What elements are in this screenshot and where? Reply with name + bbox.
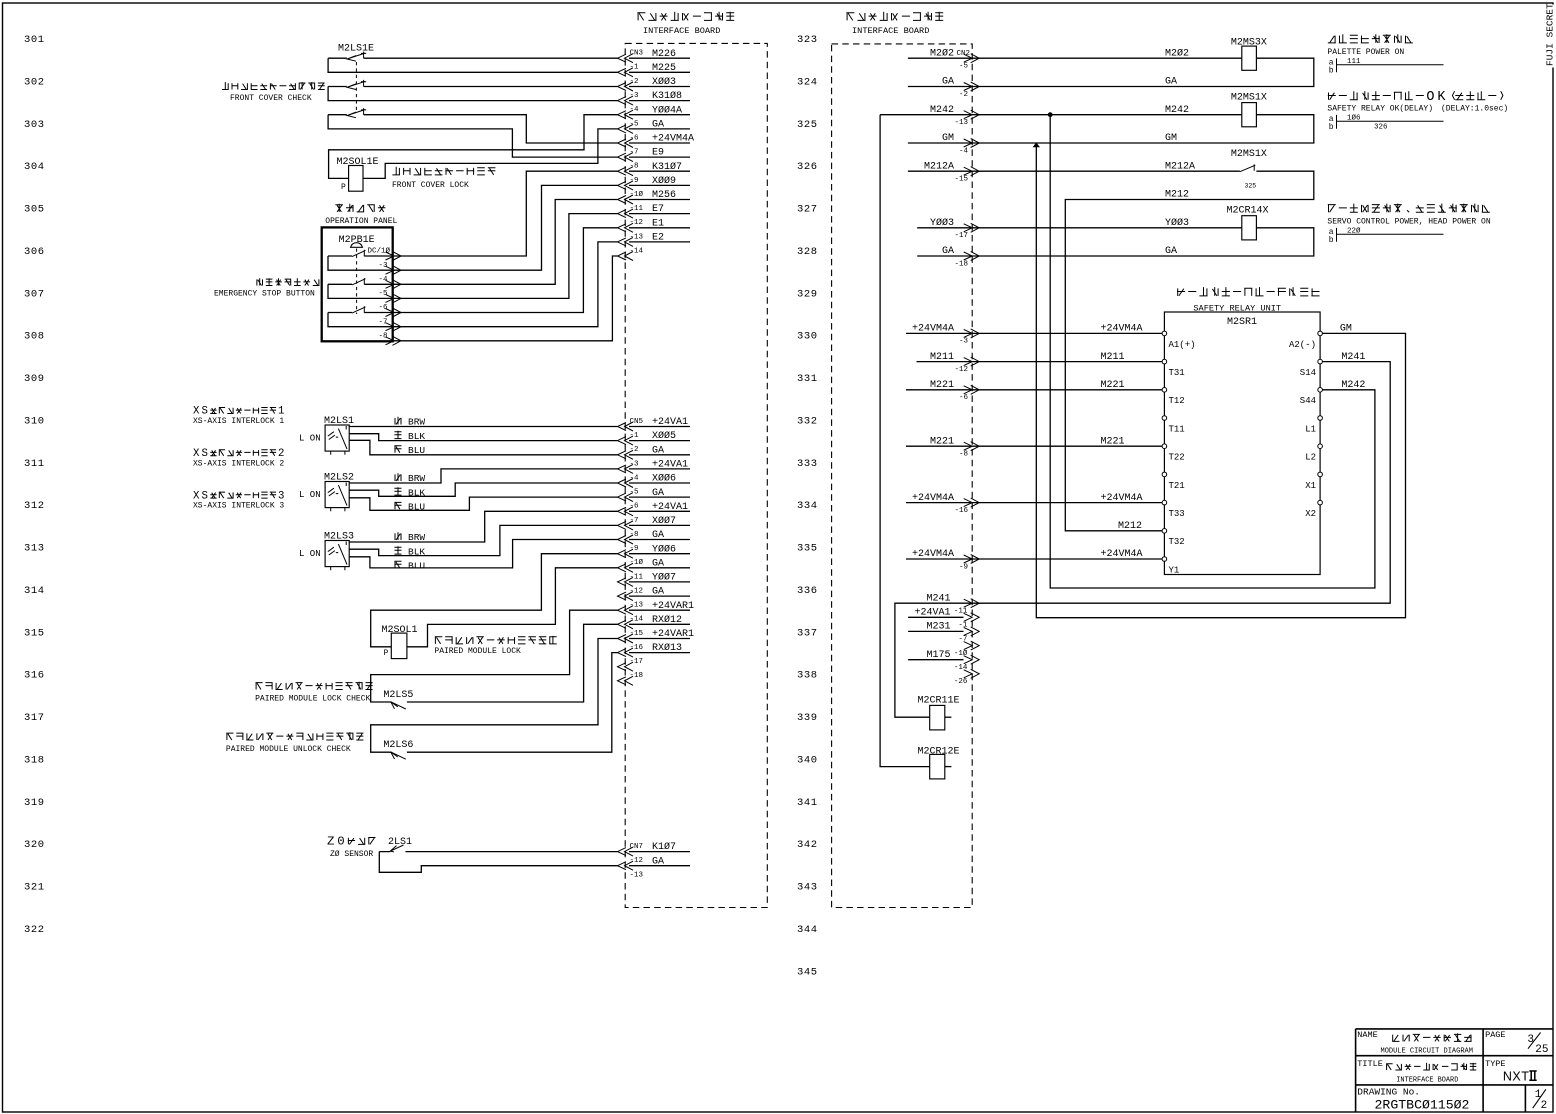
svg-text:315: 315 [24,627,45,639]
svg-text:-11: -11 [630,205,644,213]
svg-text:NXT: NXT [1503,1070,1530,1084]
svg-text:M212: M212 [1165,190,1189,201]
svg-text:25: 25 [1535,1044,1548,1056]
svg-text:PAIRED MODULE LOCK: PAIRED MODULE LOCK [434,647,521,656]
svg-text:M2MS1X: M2MS1X [1231,92,1267,103]
svg-text:PAGE: PAGE [1485,1030,1505,1040]
wire E9 loop [328,115,617,157]
svg-text:(DELAY:1.0sec): (DELAY:1.0sec) [1441,105,1508,114]
svg-text:2: 2 [278,448,284,460]
svg-text:M2PB1E: M2PB1E [339,235,375,246]
svg-text:338: 338 [797,670,818,682]
svg-text:T32: T32 [1169,537,1185,547]
svg-text:S44: S44 [1300,396,1316,406]
svg-text:-16: -16 [630,644,644,652]
svg-text:M221: M221 [1101,436,1125,447]
svg-text:PAIRED MODULE UNLOCK CHECK: PAIRED MODULE UNLOCK CHECK [226,745,351,754]
svg-text:0: 0 [337,835,344,849]
interface board label (right) [846,12,943,21]
wire GA z0 [379,852,617,873]
svg-text:341: 341 [797,797,818,809]
svg-text:-12: -12 [954,366,968,374]
svg-text:EMERGENCY STOP BUTTON: EMERGENCY STOP BUTTON [214,290,315,299]
svg-text:M211: M211 [930,352,954,363]
operation panel box [322,227,393,341]
svg-text:NAME: NAME [1357,1030,1377,1040]
svg-text:M242: M242 [1165,105,1189,116]
svg-text:M241: M241 [1341,352,1365,363]
svg-text:317: 317 [24,712,45,724]
label xs-axis interlock 3 [210,492,276,498]
svg-text:X1: X1 [1305,481,1316,491]
svg-text:b: b [1329,236,1334,245]
svg-text:M2LS6: M2LS6 [383,740,413,751]
svg-text:-12: -12 [630,857,644,865]
svg-text:M2MS1X: M2MS1X [1231,149,1267,160]
front cover switch 3 [347,108,366,118]
svg-text:335: 335 [797,543,818,555]
wire BLK1 X005 [349,434,617,441]
svg-text:326: 326 [797,161,818,173]
svg-text:M2SOL1: M2SOL1 [382,625,418,636]
wire BRW3 +24VA1 [349,511,617,542]
svg-text:K: K [1437,90,1446,105]
svg-text:FRONT COVER CHECK: FRONT COVER CHECK [230,94,312,103]
svg-text:X: X [193,406,200,418]
svg-text:M211: M211 [1101,352,1125,363]
svg-text:-6: -6 [630,503,640,511]
svg-text:342: 342 [797,839,818,851]
svg-text:-1Ø: -1Ø [630,558,644,567]
svg-text:INTERFACE BOARD: INTERFACE BOARD [852,26,929,36]
svg-text:308: 308 [24,331,45,343]
svg-text:340: 340 [797,755,818,767]
svg-text:-17: -17 [954,232,968,240]
svg-text:SAFETY RELAY OK(DELAY): SAFETY RELAY OK(DELAY) [1327,105,1433,114]
svg-text:P: P [384,649,389,658]
wire +24VM4A to A1(+) [906,332,1162,334]
svg-text:303: 303 [24,119,45,131]
svg-text:-15: -15 [630,630,644,638]
svg-text:-13: -13 [630,233,644,241]
svg-text:GA: GA [1165,246,1177,257]
svg-text:-13: -13 [630,871,644,879]
operation panel pins [386,252,402,261]
svg-text:S: S [202,448,208,460]
svg-text:XS-AXIS INTERLOCK 2: XS-AXIS INTERLOCK 2 [193,459,284,468]
connector CN2 lower pins [964,613,980,622]
svg-text:-11: -11 [630,573,644,581]
svg-text:344: 344 [797,924,818,936]
wire estop pin -6 to CN3 -12 [393,228,618,313]
svg-text:M2MS3X: M2MS3X [1231,38,1267,49]
svg-text:T12: T12 [1169,396,1185,406]
svg-text:S14: S14 [1300,368,1316,378]
svg-text:-16: -16 [954,507,968,515]
svg-text:+24VM4A: +24VM4A [1101,549,1143,560]
wire M225 loop [328,58,617,72]
label front cover check [222,82,325,89]
svg-text:22Ø: 22Ø [1347,226,1361,235]
svg-text:-5: -5 [379,290,389,298]
FUJI SECRET marking [1547,5,1556,68]
svg-text:313: 313 [24,543,45,555]
svg-text:ZØ SENSOR: ZØ SENSOR [330,850,373,859]
svg-text:301: 301 [24,34,45,46]
svg-text:-2: -2 [630,78,639,86]
wire GM from A2 [1036,143,1405,618]
svg-text:325: 325 [1245,183,1257,190]
svg-text:-2: -2 [959,91,968,99]
wire estop pin -8 to CN3 -14 [393,256,618,341]
svg-text:O: O [1426,90,1434,105]
svg-text:M2SR1: M2SR1 [1227,317,1257,328]
label paired module lock [435,636,557,644]
svg-text:TYPE: TYPE [1485,1059,1505,1069]
label Z0 sensor [348,838,376,845]
svg-text:-5: -5 [630,120,640,128]
svg-text:X2: X2 [1305,509,1316,519]
svg-text:332: 332 [797,415,818,427]
svg-text:XS-AXIS INTERLOCK 3: XS-AXIS INTERLOCK 3 [193,502,284,511]
title block [1356,1029,1554,1112]
svg-text:-1: -1 [630,432,640,440]
svg-text:L1: L1 [1305,424,1316,434]
svg-text:M212A: M212A [1165,161,1195,172]
svg-text:TITLE: TITLE [1357,1059,1383,1069]
svg-text:-3: -3 [630,92,640,100]
svg-text:-13: -13 [630,602,644,610]
svg-text:-1Ø: -1Ø [630,190,644,199]
svg-text:316: 316 [24,670,45,682]
svg-text:-8: -8 [630,163,639,171]
svg-text:2RGTBCØ115Ø2: 2RGTBCØ115Ø2 [1375,1098,1470,1113]
wire +24VM4A to switch3 [328,115,617,143]
svg-text:b: b [1329,123,1334,132]
svg-text:-12: -12 [630,588,644,596]
wire K107 [379,851,617,853]
connector CN3 pins [618,54,634,63]
connector CN7 pins [618,847,634,856]
wire GA from solenoid [363,129,618,179]
svg-text:306: 306 [24,246,45,258]
svg-text:-26: -26 [954,678,968,686]
wire X003 [328,86,617,88]
wire M242 to M2CR12E [880,115,930,767]
svg-text:309: 309 [24,373,45,385]
svg-text:330: 330 [797,331,818,343]
svg-text:-6: -6 [379,304,389,312]
svg-text:S: S [202,406,208,418]
svg-text:1Ø6: 1Ø6 [1347,113,1361,122]
svg-text:DRAWING No.: DRAWING No. [1357,1087,1420,1098]
svg-text:318: 318 [24,755,45,767]
connector CN2 pins [964,54,980,63]
svg-text:-8: -8 [959,451,968,459]
svg-text:M2CR14X: M2CR14X [1227,206,1269,217]
wire M226 [328,57,617,59]
svg-text:320: 320 [24,839,45,851]
svg-text:-7: -7 [630,517,639,525]
wire GA from M2SOL1 [407,568,618,647]
svg-text:Y1: Y1 [1169,565,1180,575]
label emergency stop button [257,278,320,285]
wire Y006 to M2SOL1 [371,554,618,647]
svg-text:319: 319 [24,797,45,809]
svg-text:DC/1Ø: DC/1Ø [368,247,391,256]
svg-text:-7: -7 [630,149,639,157]
wire BLU1 GA [349,440,617,455]
svg-text:-4: -4 [379,276,389,284]
svg-text:307: 307 [24,288,45,300]
annotation servo power [1328,204,1490,213]
svg-text:T11: T11 [1169,424,1185,434]
wire +24VM4A to T33 [906,502,1162,504]
svg-text:-18: -18 [954,260,968,268]
svg-text:S: S [202,490,208,502]
svg-text:331: 331 [797,373,818,385]
safety relay unit M2SR1 box [1164,312,1320,575]
svg-text:-5: -5 [959,63,969,71]
svg-text:PAIRED MODULE LOCK CHECK: PAIRED MODULE LOCK CHECK [255,695,370,704]
svg-text:325: 325 [797,119,818,131]
svg-text:339: 339 [797,712,818,724]
svg-text:INTERFACE BOARD: INTERFACE BOARD [1396,1077,1458,1085]
svg-text:T33: T33 [1169,509,1185,519]
svg-text:333: 333 [797,458,818,470]
svg-text:A2(-): A2(-) [1289,340,1316,350]
emergency stop contact 2 [352,278,366,285]
svg-text:M212: M212 [1118,521,1142,532]
svg-text:3: 3 [278,490,284,502]
svg-text:327: 327 [797,204,818,216]
svg-text:-8: -8 [630,531,639,539]
svg-text:-8: -8 [379,332,388,340]
svg-text:L2: L2 [1305,453,1316,463]
interface board dashed box (left) [625,43,767,907]
svg-text:326: 326 [1374,124,1388,132]
svg-text:GM: GM [1165,133,1177,144]
svg-text:345: 345 [797,966,818,978]
svg-text:-17: -17 [630,658,644,666]
wire RX012 from M2LS5 [407,624,618,702]
safety relay unit pins [1162,331,1167,336]
svg-text:-9: -9 [630,177,639,185]
annotation safety relay ok [1328,91,1503,100]
wire +24VM4A to Y1 [906,558,1162,560]
svg-text:-18: -18 [630,672,644,680]
svg-text:GA: GA [1165,77,1177,88]
wire BRW1 +24VA1 [349,426,617,428]
svg-text:X: X [193,490,200,502]
wire BLK2 X006 [349,483,617,496]
emergency stop contact 1 [352,250,366,257]
svg-text:-4: -4 [630,106,640,114]
svg-text:111: 111 [1347,58,1361,66]
wire M202 [908,57,1242,59]
svg-text:-14: -14 [630,616,644,624]
svg-text:-7: -7 [379,318,388,326]
svg-text:M221: M221 [930,436,954,447]
svg-text:M2Ø2: M2Ø2 [1165,47,1189,59]
svg-text:324: 324 [797,76,818,88]
svg-text:MODULE CIRCUIT DIAGRAM: MODULE CIRCUIT DIAGRAM [1381,1048,1473,1056]
svg-text:-6: -6 [959,394,969,402]
connector CN5 pins [618,422,634,431]
svg-text:329: 329 [797,288,818,300]
wire M212A [908,170,1240,172]
svg-text:321: 321 [24,882,45,894]
switch linkage dashed [355,62,357,112]
svg-text:-13: -13 [954,119,968,127]
wire K3108 loop [328,87,617,101]
svg-text:M2LS5: M2LS5 [383,690,413,701]
svg-text:FUJI SECRET: FUJI SECRET [1545,3,1556,66]
svg-text:L ON: L ON [299,434,321,444]
label operation panel [335,204,385,212]
wire +24VAR1 to M2LS5 [371,610,618,702]
wire M212 [1065,171,1314,531]
wire estop pin -4 to CN3 -10 [393,200,618,285]
wire GA m2cr14x [917,228,1314,256]
wire estop pin -7 to CN3 -13 [393,242,618,327]
svg-text:CN7: CN7 [630,843,644,851]
wire M211 to T31 [917,361,1163,363]
svg-text:304: 304 [24,161,45,173]
svg-text:OPERATION PANEL: OPERATION PANEL [325,217,397,226]
wire estop pin -3 to CN3 -9 [393,185,618,270]
svg-text:M2CR12E: M2CR12E [918,747,960,758]
svg-text:-4: -4 [630,474,640,482]
wire RX013 from M2LS6 [407,653,618,753]
svg-text:M241: M241 [926,593,950,604]
svg-text:+24VM4A: +24VM4A [912,324,954,335]
svg-text:T22: T22 [1169,453,1185,463]
wire GM m2ms1x [908,115,1314,143]
svg-text:-3: -3 [630,460,640,468]
svg-text:328: 328 [797,246,818,258]
svg-text:YØØ3: YØØ3 [1165,217,1189,229]
svg-text:-6: -6 [630,134,640,142]
wire M241 from S14 [895,362,1390,718]
svg-text:PALETTE POWER ON: PALETTE POWER ON [1327,48,1404,57]
wire +24VAR1 to M2LS6 [371,639,618,753]
front cover switch 2 [347,80,366,90]
svg-text:1: 1 [278,406,284,418]
svg-text:323: 323 [797,34,818,46]
svg-text:3: 3 [1527,1034,1534,1046]
svg-text:FRONT COVER LOCK: FRONT COVER LOCK [392,181,469,190]
label xs-axis interlock 1 [210,408,276,414]
svg-text:-4: -4 [959,147,969,155]
svg-text:-15: -15 [954,176,968,184]
svg-text:M2LS1E: M2LS1E [338,44,374,55]
svg-text:A1(+): A1(+) [1169,340,1196,350]
svg-text:334: 334 [797,500,818,512]
svg-text:312: 312 [24,500,45,512]
svg-text:-5: -5 [630,489,640,497]
svg-text:310: 310 [24,415,45,427]
svg-text:-1: -1 [630,64,640,72]
svg-text:X: X [193,448,200,460]
svg-text:305: 305 [24,204,45,216]
label paired module lock check [256,682,373,690]
svg-text:-9: -9 [630,545,639,553]
svg-text:-9: -9 [959,563,968,571]
svg-text:343: 343 [797,882,818,894]
wire M221 to T12 [906,389,1162,391]
svg-text:+24VM4A: +24VM4A [1101,493,1143,504]
svg-text:M242: M242 [1341,380,1365,391]
svg-text:INTERFACE BOARD: INTERFACE BOARD [643,26,720,36]
label paired module unlock check [226,732,363,740]
svg-text:L ON: L ON [299,549,321,559]
svg-text:337: 337 [797,627,818,639]
svg-text:GM: GM [1340,324,1352,335]
wire BRW2 +24VA1 [349,469,617,483]
svg-text:b: b [1329,66,1334,75]
wire BLK3 X007 [349,525,617,555]
svg-text:-3: -3 [379,262,389,270]
wire estop pin DC/10 to CN3 -8 [393,171,618,256]
annotation palette power on [1328,34,1413,43]
svg-text:CN2: CN2 [957,50,971,58]
svg-text:314: 314 [24,585,45,597]
svg-text:XS-AXIS INTERLOCK 1: XS-AXIS INTERLOCK 1 [193,417,284,426]
svg-text:SERVO CONTROL POWER, HEAD POWE: SERVO CONTROL POWER, HEAD POWER ON [1327,217,1490,226]
wire BLU3 GA [349,540,617,568]
svg-text:M2SOL1E: M2SOL1E [337,157,379,168]
svg-text:CN3: CN3 [630,50,644,58]
svg-text:-12: -12 [630,219,644,227]
wire BLU2 GA [349,497,617,510]
svg-text:302: 302 [24,76,45,88]
wire estop pin -5 to CN3 -11 [393,214,618,299]
svg-text:P: P [341,183,346,192]
emergency stop contact 3 [352,306,366,313]
svg-text:-2: -2 [630,446,639,454]
label front cover lock [392,167,495,175]
svg-text:+24VM4A: +24VM4A [912,493,954,504]
svg-text:+24VM4A: +24VM4A [912,549,954,560]
svg-text:-14: -14 [630,247,644,255]
svg-text:322: 322 [24,924,45,936]
wire GA m2ms3x [908,58,1314,86]
svg-text:-3: -3 [959,338,969,346]
svg-text:M221: M221 [930,380,954,391]
label safety relay unit [1177,287,1320,296]
svg-text:T31: T31 [1169,368,1185,378]
svg-text:L ON: L ON [299,490,321,500]
svg-text:+24VM4A: +24VM4A [1101,324,1143,335]
svg-text:2: 2 [1541,1100,1548,1112]
label xs-axis interlock 2 [210,450,276,456]
interface board dashed box (right) [832,44,973,908]
interface board label (left) [637,12,734,21]
svg-text:T21: T21 [1169,481,1185,491]
svg-text:336: 336 [797,585,818,597]
wire Y003 [917,227,1242,229]
svg-text:CN5: CN5 [630,418,644,426]
svg-text:BLU: BLU [408,560,425,571]
wire M242 [880,114,1242,116]
wire M221 to T22 [906,445,1162,447]
svg-text:311: 311 [24,458,45,470]
svg-text:M221: M221 [1101,380,1125,391]
wire M242 from S44 [1050,115,1375,588]
wire Y004A to solenoid [329,115,618,179]
svg-text:Z: Z [327,835,334,849]
